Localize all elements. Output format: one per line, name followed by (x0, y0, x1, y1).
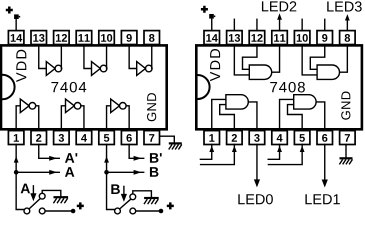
label LED0 (238, 194, 273, 204)
wire U1 pin5 down to switch B (107, 145, 115, 210)
wire +V to U2 pin 14 (211, 19, 213, 31)
U1 pin 7 box (144, 131, 160, 145)
wire switch B to ground (133, 191, 152, 197)
U1 label VDD (16, 50, 26, 82)
U2 pin 5 box (294, 131, 310, 145)
U2 pin 8 box (340, 31, 356, 45)
AND gate U2 pins12,13-to-11 (234, 46, 279, 79)
arrowhead A' (49, 156, 57, 161)
arrowhead B' (134, 156, 142, 161)
wire U1 pin 7 to ground (160, 136, 175, 142)
U1 pin 13 box (31, 31, 47, 45)
IC U2 7408 body (196, 45, 362, 129)
ground at switch A (54, 196, 69, 198)
U2 pin 12 box (249, 31, 265, 45)
AND gate U2 pins9,10-to-8 (302, 46, 347, 79)
wire input U2 pin1 (200, 145, 211, 160)
input stub U2 pin 12 (256, 19, 258, 30)
switch B lever (120, 199, 131, 209)
switch A throw contact upper (39, 193, 45, 199)
arrowhead up on pin1 wire (14, 156, 19, 162)
U2 pin 7 box (340, 131, 356, 145)
wire U2 pin 7 to ground (345, 145, 347, 158)
U1 pin 11 box (76, 31, 92, 45)
U2 pin 13 box (227, 31, 243, 45)
U1 pin 9 box (121, 31, 136, 45)
label LED3 (327, 1, 361, 11)
label A' (65, 153, 77, 163)
node switch B +V (159, 209, 164, 214)
inverter U1 gate pin3-to-pin4 (61, 99, 84, 129)
U2 pin 10 box (294, 31, 310, 45)
AND gate U2 pins4,5-to-6 (280, 95, 325, 129)
U2 pin 14 box (204, 31, 220, 45)
input stub U2 pin 9 (324, 19, 326, 30)
U2 +V supply plus (201, 6, 208, 13)
inverter U1 gate pin9-to-pin8 (129, 46, 152, 75)
U2 pin 6 box (317, 131, 333, 145)
wire +V to U1 pin 14 (15, 19, 17, 31)
U2 part number 7408 (270, 82, 305, 93)
U2 label VDD (210, 49, 220, 81)
U1 pin 14 box (8, 31, 24, 45)
inverter U1 gate pin13-to-pin12 (39, 46, 62, 75)
wire U2 pin3 to LED0 (256, 145, 258, 183)
switch A lever (29, 199, 40, 209)
U2 label GND (341, 91, 350, 119)
U2 +V terminal square (209, 14, 214, 19)
U1 pin 5 box (99, 131, 115, 145)
arrowhead LED0 (254, 179, 260, 187)
label A (65, 167, 74, 177)
U1 pin 10 box (99, 31, 115, 45)
ground at U2 pin 7 (340, 157, 353, 159)
U2 pin 3 box (249, 131, 265, 145)
switch B common contact (115, 208, 121, 214)
wire U2 pin11 to LED2 (279, 18, 281, 30)
label B' (150, 153, 162, 163)
input stub U2 pin 10 (301, 19, 303, 30)
IC U1 7404 body (1, 45, 167, 129)
wire input U2 pin2 (201, 145, 235, 165)
wire input U2 pin4 (268, 145, 279, 160)
U2 pin 1 box (204, 131, 220, 145)
wire node A to arrow (16, 171, 59, 173)
node switch A +V (71, 209, 76, 214)
ground at U1 pin 7 (169, 142, 182, 144)
AND gate U2 pins1,2-to-3 (212, 95, 257, 129)
arrowhead up on pin5 wire (104, 156, 109, 162)
junction node A (14, 170, 19, 175)
switch A label (21, 184, 30, 194)
wire U1 pin2 to A' (39, 145, 60, 159)
U1 pin 3 box (54, 131, 70, 145)
U1 pin 4 box (76, 131, 92, 145)
ground at switch B (144, 197, 159, 199)
switch B actuation arrow (123, 186, 125, 195)
U2 pin 2 box (227, 131, 243, 145)
switch A actuation arrow (32, 186, 34, 195)
label B (150, 167, 159, 177)
wire switch A to +V (45, 210, 71, 212)
wire U2 pin6 to LED1 (324, 145, 326, 183)
switch A throw contact lower (39, 208, 45, 214)
junction node B (104, 170, 109, 175)
wire switch B to +V (136, 210, 159, 212)
wire node B to arrow (107, 171, 144, 173)
U1 pin 6 box (121, 131, 136, 145)
input stub U2 pin 13 (233, 19, 235, 30)
wire U1 pin6 to B' (129, 145, 144, 159)
inverter U1 gate pin11-to-pin10 (84, 46, 107, 75)
U2 pin 9 box (317, 31, 333, 45)
U2 pin 11 box (272, 31, 288, 45)
U2 notch (198, 75, 210, 99)
arrowhead A (49, 170, 57, 175)
wire switch A to ground (42, 190, 61, 196)
label LED1 (305, 194, 339, 204)
U1 pin 8 box (144, 31, 160, 45)
arrowhead B (134, 170, 142, 175)
switch B throw contact upper (130, 194, 136, 200)
U1 +V supply plus (6, 7, 13, 14)
U1 label GND (147, 93, 156, 121)
plus at switch B (167, 202, 174, 209)
arrowhead LED2 (277, 13, 282, 19)
wire input U2 pin5 (268, 145, 302, 165)
inverter U1 gate pin5-to-pin6 (107, 99, 130, 129)
U1 pin 12 box (54, 31, 70, 45)
U1 pin 2 box (31, 131, 47, 145)
label LED2 (262, 1, 296, 11)
U1 part number 7404 (51, 82, 86, 93)
U2 pin 4 box (272, 131, 288, 145)
switch B throw contact lower (130, 208, 136, 214)
U1 pin 1 box (8, 131, 24, 145)
switch A common contact (24, 208, 30, 214)
U1 +V terminal square (14, 14, 19, 19)
switch B label (111, 184, 120, 194)
U1 notch (2, 75, 14, 100)
arrowhead LED1 (322, 180, 328, 188)
plus at switch A (77, 202, 84, 209)
wire U2 pin8 to LED3 (346, 19, 348, 31)
inverter U1 gate pin1-to-pin2 (16, 99, 39, 129)
wire U1 pin1 down to switch A (16, 145, 24, 210)
arrowhead LED3 (345, 14, 350, 20)
